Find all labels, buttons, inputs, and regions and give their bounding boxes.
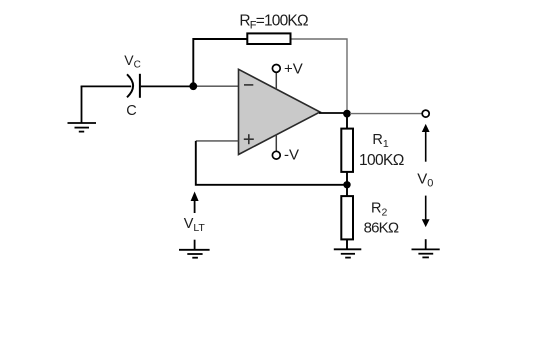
resistor R2 [341, 196, 353, 239]
svg-text:C: C [126, 103, 136, 119]
wire: down from noninverting input and right to mid node [196, 141, 347, 185]
ground GND4 (below V0) [412, 239, 440, 257]
wire: R1 bottom to mid node [346, 172, 348, 196]
wire: op-amp noninverting input stub (thin) [196, 140, 239, 142]
op-amp U1 [239, 69, 321, 154]
terminal Vo (open circle) [422, 110, 429, 117]
wire: output node down to R1 [346, 114, 348, 129]
svg-text:+V: +V [284, 61, 303, 78]
svg-text:RF=100KΩ: RF=100KΩ [239, 12, 308, 31]
ground GND1 (left, capacitor input) [68, 86, 97, 132]
arrow V0 (double headed, up) [422, 124, 430, 132]
ground GND2 (below R2) [334, 249, 362, 257]
arrow V0 (double headed, down) [425, 196, 427, 221]
arrow VLT (pointing up) [194, 198, 196, 213]
node output junction [343, 110, 351, 118]
svg-text:100KΩ: 100KΩ [359, 152, 404, 169]
wire: ground to capacitor [81, 85, 132, 87]
wire: R2 bottom to ground [346, 240, 348, 249]
op-amp plus sign [244, 134, 254, 144]
wire: op-amp output to node [319, 112, 347, 114]
svg-text:86KΩ: 86KΩ [364, 219, 399, 236]
wire: capacitor to junction [141, 85, 194, 87]
capacitor C [127, 74, 140, 98]
node mid junction (R1/R2) [343, 181, 350, 188]
resistor R1 [341, 129, 353, 172]
+V supply terminal [275, 72, 277, 89]
wire: output node to Vo terminal (gray) [350, 113, 422, 115]
resistor RF [247, 33, 290, 44]
node junction A (inverting input) [189, 82, 197, 90]
ground GND3 (below VLT) [179, 240, 210, 258]
-V supply terminal [275, 135, 277, 152]
svg-text:-V: -V [284, 147, 299, 164]
op-amp minus sign [244, 84, 253, 86]
wire: RF right down to output node (gray) [292, 39, 348, 111]
wire: junction to op-amp inverting input (thin) [194, 85, 239, 87]
wire: junction up and right to RF [193, 39, 246, 86]
